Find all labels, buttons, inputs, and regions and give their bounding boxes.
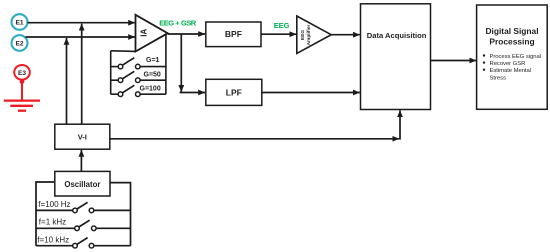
switch row f=100 Hz — [36, 202, 131, 212]
svg-text:BPF: BPF — [225, 29, 242, 39]
svg-text:Recover GSR: Recover GSR — [490, 61, 526, 67]
svg-text:Stress: Stress — [490, 75, 506, 81]
wire elbow to LPF — [180, 92, 205, 94]
op-amp U1 (IA instrumentation amplifier) — [136, 15, 168, 52]
svg-text:EEG: EEG — [300, 30, 306, 40]
switch row f=1 kHz — [36, 220, 131, 230]
wire E2 to IA — [26, 36, 136, 38]
Oscillator box — [55, 171, 110, 196]
svg-text:EEG: EEG — [274, 21, 290, 30]
wire left bus — [36, 182, 55, 246]
svg-text:G=50: G=50 — [144, 72, 161, 79]
V-I box — [55, 124, 110, 149]
wire right bus — [110, 183, 131, 246]
svg-text:f=100 Hz: f=100 Hz — [38, 200, 70, 209]
svg-text:Data Acquisition: Data Acquisition — [367, 31, 427, 40]
svg-text:E1: E1 — [15, 20, 23, 27]
wire IA to BPF — [168, 33, 205, 35]
svg-text:Estimate Mental: Estimate Mental — [490, 68, 531, 74]
ground — [4, 79, 40, 111]
LPF box — [206, 79, 262, 105]
wire EEG amplifier to Data Acquisition — [331, 34, 360, 36]
wire V-I to E2 wire — [66, 38, 68, 124]
svg-text:V-I: V-I — [78, 133, 87, 142]
electrode E1 — [12, 14, 28, 30]
svg-text:G=1: G=1 — [146, 57, 160, 64]
svg-text:E2: E2 — [15, 40, 23, 47]
svg-text:Processing: Processing — [489, 36, 534, 46]
wire BPF to EEG amplifier — [261, 33, 296, 35]
gain select box — [111, 34, 166, 94]
svg-text:EEG + GSR: EEG + GSR — [159, 18, 197, 27]
wire E1 to IA — [28, 22, 136, 24]
wire V-I output elbow right — [110, 138, 399, 140]
svg-text:G=100: G=100 — [140, 86, 161, 93]
Digital Signal Processing box — [477, 5, 548, 109]
switch row G=100 — [111, 85, 166, 96]
svg-text:Process EEG signal: Process EEG signal — [490, 54, 541, 60]
wire Data Acquisition to DSP — [431, 60, 477, 62]
wire LPF to Data Acquisition — [262, 92, 360, 94]
svg-text:E3: E3 — [18, 70, 26, 77]
svg-text:f=1 kHz: f=1 kHz — [39, 218, 66, 227]
svg-text:Amplifier: Amplifier — [306, 24, 312, 45]
electrode E2 — [12, 35, 28, 51]
wire junction drop to LPF — [180, 34, 182, 92]
wire V-I to E1 wire — [81, 24, 83, 125]
switch row G=1 — [111, 57, 166, 69]
electrode E3 — [14, 65, 30, 80]
svg-text:IA: IA — [140, 29, 149, 37]
svg-text:Digital Signal: Digital Signal — [485, 26, 538, 36]
switch row f=10 kHz — [36, 238, 131, 248]
op-amp U2 (EEG amplifier) — [297, 16, 331, 53]
svg-text:Oscillator: Oscillator — [64, 180, 100, 189]
wire Oscillator to V-I — [80, 150, 82, 171]
svg-text:LPF: LPF — [226, 88, 242, 98]
wire elbow up to Data Acquisition — [399, 110, 401, 139]
switch row G=50 — [111, 71, 166, 82]
Data Acquisition box — [361, 4, 431, 110]
BPF box — [206, 22, 261, 47]
svg-text:f=10 kHz: f=10 kHz — [37, 235, 69, 244]
